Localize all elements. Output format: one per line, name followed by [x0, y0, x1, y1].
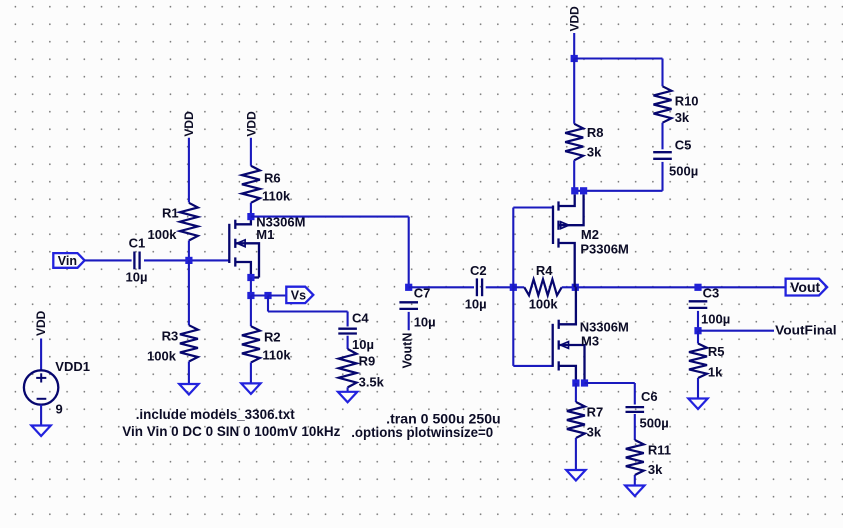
wire C6 to R11 — [634, 414, 636, 440]
svg-text:VDD: VDD — [182, 111, 196, 137]
wire to VoutFinal label — [698, 330, 774, 332]
svg-text:.include models_3306.txt: .include models_3306.txt — [136, 406, 295, 422]
svg-text:Vout: Vout — [790, 279, 820, 295]
node C3 top (Vout) — [694, 284, 701, 291]
svg-text:VoutN: VoutN — [401, 333, 415, 369]
wire gate bus down to M3 gate — [512, 287, 514, 366]
wire mid node to C3 — [575, 286, 698, 288]
wire to R10 — [661, 59, 663, 87]
svg-text:10µ: 10µ — [352, 337, 374, 352]
svg-text:C1: C1 — [129, 236, 146, 251]
svg-text:M2: M2 — [581, 227, 599, 242]
wire R9 to ground — [347, 387, 349, 391]
capacitor C6 — [626, 407, 645, 412]
svg-text:500µ: 500µ — [640, 416, 669, 431]
wire M3 source to R7 — [575, 383, 577, 402]
node M3 bulk tie — [581, 379, 588, 386]
wire C2 to gate bus node — [486, 286, 514, 288]
node M1 source/bulk — [247, 274, 254, 281]
node VDD rail — [571, 55, 578, 62]
ground (R5) — [688, 399, 707, 410]
wire Vs node to R2 — [250, 296, 252, 327]
svg-text:100k: 100k — [529, 297, 559, 312]
svg-text:R11: R11 — [648, 443, 671, 458]
wire gate bus up to M2 gate — [512, 208, 514, 288]
capacitor C5 — [653, 152, 672, 159]
wire R10 to C5 — [661, 123, 663, 150]
wire M1 source to Vs node — [250, 278, 252, 296]
capacitor C2 — [477, 278, 482, 296]
wire M1 drain to C7 column — [251, 216, 409, 218]
resistor R4 — [524, 279, 561, 295]
ground (R7) — [566, 470, 585, 481]
wire to M3 gate — [513, 365, 552, 367]
resistor R8 — [565, 124, 583, 161]
svg-text:100µ: 100µ — [701, 312, 730, 327]
wire R2 to ground — [250, 363, 252, 384]
wire R7 to ground — [575, 438, 577, 470]
capacitor C7 — [399, 302, 418, 309]
wire R4 right lead — [562, 286, 576, 288]
svg-text:R4: R4 — [536, 263, 553, 278]
node M1 drain (R6 bottom) — [247, 213, 254, 220]
svg-text:9: 9 — [56, 402, 63, 417]
node Vs (C4 branch) — [264, 292, 271, 299]
resistor R3 — [180, 325, 198, 361]
wire Vin to C1 — [85, 259, 132, 261]
transistor M3 (NMOS) — [553, 287, 585, 383]
wire VDD1 minus to ground — [40, 405, 42, 426]
wire to C4 top — [347, 312, 349, 327]
svg-text:C5: C5 — [675, 138, 692, 153]
wire C7 to VoutN label — [408, 312, 410, 330]
node output stage mid (M2 drain / M3 drain) — [572, 284, 579, 291]
resistor R9 — [339, 349, 357, 387]
svg-text:10µ: 10µ — [126, 270, 148, 285]
wire R1 to input node — [188, 241, 190, 261]
wire down to C7 node — [408, 217, 410, 288]
svg-text:Vin Vin 0 DC 0 SIN 0 100mV 10k: Vin Vin 0 DC 0 SIN 0 100mV 10kHz — [122, 423, 340, 439]
svg-text:110k: 110k — [262, 348, 291, 363]
ground (VDD1) — [31, 426, 50, 437]
svg-text:Vs: Vs — [291, 288, 306, 302]
svg-text:C6: C6 — [641, 389, 658, 404]
wire C1 to M1 gate — [144, 259, 229, 261]
ground (R11) — [625, 486, 644, 497]
resistor R6 — [242, 166, 260, 203]
ground (R3) — [179, 384, 198, 395]
svg-text:VDD: VDD — [244, 111, 258, 137]
wire Vs node segment — [251, 294, 268, 296]
svg-text:R8: R8 — [587, 125, 604, 140]
wire to C4 column — [268, 310, 348, 312]
svg-text:.options plotwinsize=0: .options plotwinsize=0 — [351, 424, 493, 440]
wire to M2 gate — [513, 206, 553, 208]
ground (R2) — [241, 383, 260, 394]
wire VDD to R1 — [188, 138, 190, 203]
svg-text:VDD: VDD — [568, 6, 582, 32]
wire C5 bottom to M2 source node — [574, 190, 662, 192]
svg-text:N3306M: N3306M — [580, 320, 629, 335]
node M2 source (R8 bottom) — [571, 187, 578, 194]
resistor R5 — [689, 344, 707, 379]
svg-text:C2: C2 — [470, 263, 487, 278]
node VoutFinal (R5 top) — [694, 327, 701, 334]
node gate bus (R4 left) — [510, 284, 517, 291]
wire VDD flag down — [573, 33, 575, 59]
capacitor C3 — [689, 301, 708, 308]
svg-text:R9: R9 — [359, 354, 376, 369]
wire C4 to R9 — [347, 336, 349, 349]
svg-text:3.5k: 3.5k — [359, 375, 385, 390]
wire R5 to ground — [697, 378, 699, 399]
svg-text:1k: 1k — [708, 365, 723, 380]
svg-text:Vin: Vin — [58, 254, 77, 268]
voltage source VDD1 — [24, 370, 58, 404]
port Vin — [53, 253, 84, 268]
wire R3 to ground — [188, 362, 190, 385]
svg-text:10µ: 10µ — [465, 297, 487, 312]
svg-text:C3: C3 — [703, 286, 720, 301]
node Vs (R2 top) — [247, 292, 254, 299]
port Vout — [786, 279, 828, 296]
svg-text:VoutFinal: VoutFinal — [775, 323, 837, 338]
wire C3 to VoutFinal node — [697, 311, 699, 331]
node input (C1/R1/R3/M1 gate junction) — [185, 257, 192, 264]
svg-text:M3: M3 — [581, 334, 599, 349]
wire VDD rail to R10 — [574, 57, 662, 59]
svg-text:VDD: VDD — [34, 310, 48, 336]
svg-text:VDD1: VDD1 — [55, 359, 90, 374]
wire Vs node down — [267, 296, 269, 312]
svg-text:R10: R10 — [675, 94, 699, 109]
node M2 bulk tie — [580, 187, 587, 194]
svg-text:R3: R3 — [162, 329, 179, 344]
wire R11 to ground — [634, 475, 636, 486]
wire C7 node to C2 — [409, 286, 474, 288]
wire to C6 top — [634, 383, 636, 405]
transistor M2 (PMOS) — [553, 195, 584, 288]
svg-text:P3306M: P3306M — [580, 242, 628, 257]
svg-text:R5: R5 — [708, 344, 725, 359]
capacitor C1 — [134, 252, 139, 270]
node M3 source (R7 top) — [572, 379, 579, 386]
node C7 top (interstage) — [405, 284, 412, 291]
svg-text:R1: R1 — [162, 206, 179, 221]
wire to Vout port — [698, 286, 786, 288]
svg-text:3k: 3k — [587, 145, 602, 160]
resistor R11 — [626, 440, 644, 475]
svg-text:100k: 100k — [147, 349, 177, 364]
transistor M1 (NMOS) — [229, 217, 259, 278]
wire C5 down — [661, 162, 663, 191]
wire node to R5 — [697, 331, 699, 344]
svg-text:100k: 100k — [148, 227, 178, 242]
wire VDD to R6 — [250, 138, 252, 166]
capacitor C4 — [338, 329, 357, 334]
resistor R7 — [567, 402, 585, 438]
resistor R1 — [180, 203, 198, 241]
wire R6 to M1 drain node — [250, 203, 252, 217]
ground (R9) — [338, 392, 357, 403]
wire input node to R3 — [188, 260, 190, 325]
svg-text:R2: R2 — [264, 330, 281, 345]
svg-text:3k: 3k — [587, 425, 602, 440]
resistor R10 — [654, 86, 672, 122]
svg-text:R6: R6 — [264, 171, 281, 186]
wire R8 to M2 source node — [573, 160, 575, 191]
svg-text:110k: 110k — [262, 189, 291, 204]
resistor R2 — [242, 326, 260, 362]
svg-text:500µ: 500µ — [669, 164, 698, 179]
wire to Vs port — [268, 294, 286, 296]
svg-text:3k: 3k — [675, 110, 690, 125]
port Vs — [286, 287, 313, 303]
svg-text:C4: C4 — [352, 311, 369, 326]
svg-text:10µ: 10µ — [414, 315, 436, 330]
wire VDD flag to VDD1 plus terminal — [40, 339, 42, 371]
svg-text:3k: 3k — [648, 462, 663, 477]
wire R4 left lead — [513, 286, 524, 288]
wire M3 source node to C6 — [585, 382, 635, 384]
wire VDD to R8 — [573, 59, 575, 124]
svg-text:M1: M1 — [256, 227, 274, 242]
svg-text:R7: R7 — [587, 405, 604, 420]
